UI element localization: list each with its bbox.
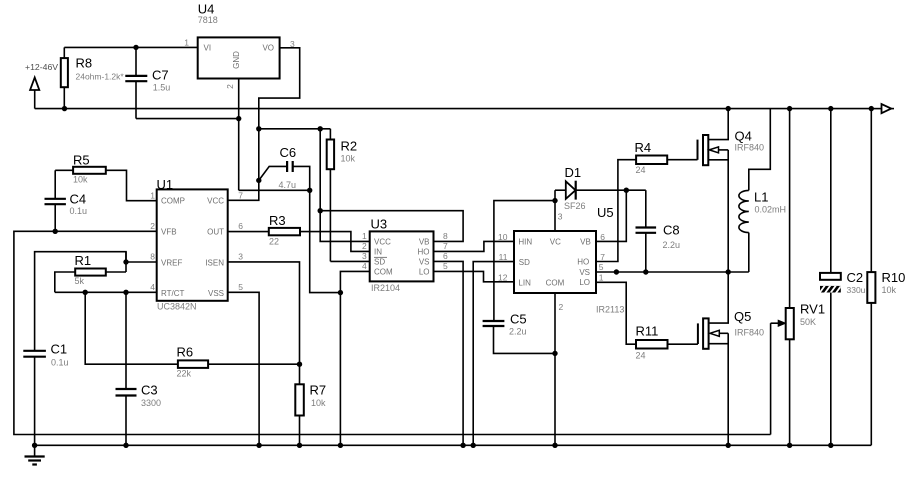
wire RT/CT branch to R6 bbox=[85, 292, 178, 364]
svg-text:VB: VB bbox=[419, 237, 430, 246]
wire U3 LO pin 5 to U5 LIN pin 12 bbox=[434, 271, 515, 281]
svg-text:2: 2 bbox=[559, 302, 564, 312]
wire U4 GND pin 2 down bbox=[238, 79, 240, 191]
svg-text:LIN: LIN bbox=[518, 278, 531, 287]
wire +18V branch line bbox=[259, 128, 331, 130]
svg-text:R8: R8 bbox=[76, 56, 93, 71]
svg-text:8: 8 bbox=[443, 231, 448, 241]
svg-text:12: 12 bbox=[498, 272, 508, 282]
svg-text:10: 10 bbox=[498, 232, 508, 242]
svg-text:6: 6 bbox=[238, 221, 243, 231]
svg-text:VCC: VCC bbox=[207, 197, 224, 206]
svg-text:2: 2 bbox=[225, 84, 235, 89]
svg-text:COM: COM bbox=[546, 279, 565, 288]
svg-text:U3: U3 bbox=[371, 217, 388, 232]
capacitor C1 bbox=[23, 342, 68, 446]
capacitor C3 bbox=[116, 383, 162, 446]
wire U3 COM ground drop bbox=[339, 293, 341, 446]
svg-text:ISEN: ISEN bbox=[205, 258, 224, 267]
svg-text:1: 1 bbox=[599, 272, 604, 282]
svg-text:L1: L1 bbox=[754, 190, 768, 205]
wire top +12-46V rail bbox=[35, 108, 872, 110]
resistor R1 bbox=[55, 253, 157, 292]
svg-text:C1: C1 bbox=[51, 342, 68, 357]
op-amp U1 UC3842N box bbox=[150, 177, 243, 312]
wire U5 LO pin 1 to R11 bbox=[596, 282, 636, 344]
wire U4 VO pin 3 routing bbox=[228, 48, 300, 201]
svg-text:8: 8 bbox=[150, 252, 155, 262]
svg-text:4.7u: 4.7u bbox=[279, 180, 297, 190]
wire U3 HO pin 7 to U5 HIN pin 10 bbox=[434, 241, 515, 251]
wire U1 VSS pin 5 to ground bbox=[228, 292, 259, 445]
svg-text:VSS: VSS bbox=[208, 289, 224, 298]
svg-text:C6: C6 bbox=[280, 145, 297, 160]
svg-text:11: 11 bbox=[499, 252, 508, 262]
svg-text:OUT: OUT bbox=[207, 228, 224, 237]
svg-text:6: 6 bbox=[443, 251, 448, 261]
wire U1 ISEN pin 3 to R6/R7 node bbox=[228, 262, 300, 364]
svg-text:4: 4 bbox=[362, 261, 367, 271]
wire U5 COM pin 2 to ground bbox=[554, 293, 556, 445]
capacitor C8 bbox=[636, 190, 681, 272]
diode D1 SF26 bbox=[555, 165, 646, 211]
svg-text:RT/CT: RT/CT bbox=[161, 289, 185, 298]
op-amp U5 IR2113 box bbox=[498, 205, 624, 315]
svg-text:C5: C5 bbox=[510, 312, 527, 327]
svg-text:VC: VC bbox=[550, 237, 561, 246]
svg-text:R1: R1 bbox=[75, 253, 92, 268]
svg-text:1: 1 bbox=[184, 38, 189, 48]
svg-text:RV1: RV1 bbox=[800, 302, 825, 317]
svg-text:3: 3 bbox=[362, 251, 367, 261]
svg-text:U1: U1 bbox=[157, 177, 174, 192]
svg-text:R11: R11 bbox=[636, 324, 659, 339]
svg-text:VI: VI bbox=[204, 44, 212, 53]
svg-text:0.1u: 0.1u bbox=[51, 358, 69, 368]
wire VREF net to C1 bbox=[35, 252, 157, 351]
wire RT/CT branch to C3 bbox=[125, 292, 127, 389]
svg-text:IR2113: IR2113 bbox=[596, 305, 624, 315]
wire bottom ground rail bbox=[35, 444, 872, 446]
svg-text:HO: HO bbox=[577, 258, 589, 267]
svg-text:5: 5 bbox=[443, 261, 448, 271]
svg-text:COMP: COMP bbox=[161, 197, 185, 206]
wire U5 VS pin 5 switch-node row bbox=[596, 271, 749, 273]
capacitor C4 bbox=[45, 170, 88, 231]
wire VFB feedback net bbox=[14, 231, 771, 434]
svg-text:7818: 7818 bbox=[198, 15, 218, 25]
svg-text:VO: VO bbox=[262, 44, 274, 53]
potentiometer RV1 bbox=[771, 109, 825, 446]
svg-text:24: 24 bbox=[636, 351, 646, 361]
svg-text:5: 5 bbox=[238, 282, 243, 292]
svg-text:VB: VB bbox=[580, 237, 591, 246]
svg-text:SD: SD bbox=[374, 257, 385, 266]
wire U3 VS pin 6 to ground bbox=[434, 261, 464, 445]
svg-text:U5: U5 bbox=[597, 205, 614, 220]
svg-text:R5: R5 bbox=[73, 153, 90, 168]
wire ground net from U4 down bbox=[310, 190, 341, 292]
svg-text:0.02mH: 0.02mH bbox=[755, 205, 787, 215]
svg-text:R10: R10 bbox=[882, 270, 906, 285]
svg-text:VFB: VFB bbox=[161, 228, 177, 237]
resistor R3 bbox=[228, 213, 370, 251]
svg-text:Q5: Q5 bbox=[734, 309, 751, 324]
svg-text:VREF: VREF bbox=[161, 258, 182, 267]
resistor R10 bbox=[867, 109, 905, 446]
svg-text:IR2104: IR2104 bbox=[371, 283, 400, 293]
wire D1 cathode branch to U5 VB pin 6 bbox=[596, 190, 626, 241]
wire U3 COM pin 4 bbox=[340, 271, 369, 292]
svg-text:D1: D1 bbox=[565, 165, 582, 180]
wire U5 VC pin 3 bbox=[554, 190, 556, 231]
svg-text:IN: IN bbox=[374, 247, 382, 256]
svg-text:10k: 10k bbox=[882, 285, 897, 295]
resistor R4 bbox=[635, 140, 698, 175]
svg-text:HO: HO bbox=[418, 247, 430, 256]
capacitor C7 bbox=[125, 47, 170, 118]
wire U5 SD pin 11 to ground bbox=[473, 262, 514, 446]
svg-text:10k: 10k bbox=[311, 398, 326, 408]
capacitor C5 bbox=[483, 312, 555, 354]
node output arrow (right end of top rail) bbox=[871, 104, 894, 113]
svg-text:R3: R3 bbox=[269, 213, 286, 228]
svg-text:R7: R7 bbox=[310, 383, 327, 398]
svg-text:VCC: VCC bbox=[374, 237, 391, 246]
svg-text:SD: SD bbox=[519, 258, 530, 267]
resistor R11 bbox=[636, 324, 698, 361]
svg-text:3300: 3300 bbox=[141, 398, 161, 408]
op-amp U3 IR2104 box bbox=[362, 217, 448, 294]
svg-text:+12-46V: +12-46V bbox=[25, 62, 58, 72]
svg-text:LO: LO bbox=[419, 267, 430, 276]
svg-text:1: 1 bbox=[150, 190, 155, 200]
transistor Q5 IRF840 bbox=[698, 272, 764, 445]
svg-text:Q4: Q4 bbox=[735, 129, 752, 144]
svg-text:VS: VS bbox=[419, 257, 430, 266]
svg-text:10k: 10k bbox=[73, 175, 88, 185]
resistor R8 bbox=[61, 47, 125, 108]
svg-text:24ohm-1.2k*: 24ohm-1.2k* bbox=[76, 72, 125, 82]
capacitor C2 electrolytic bbox=[818, 109, 866, 446]
svg-text:6: 6 bbox=[600, 232, 605, 242]
svg-text:R4: R4 bbox=[635, 140, 652, 155]
resistor R5 bbox=[55, 153, 157, 201]
svg-text:50K: 50K bbox=[800, 317, 816, 327]
svg-text:3: 3 bbox=[238, 252, 243, 262]
svg-text:COM: COM bbox=[374, 267, 393, 276]
resistor R6 bbox=[177, 345, 300, 379]
svg-text:2: 2 bbox=[362, 241, 367, 251]
svg-text:7: 7 bbox=[443, 241, 448, 251]
svg-text:0.1u: 0.1u bbox=[70, 206, 88, 216]
wire VC net to C5 bbox=[494, 201, 555, 321]
resistor R2 bbox=[327, 129, 370, 262]
op-amp U4 regulator 7818 box bbox=[184, 2, 295, 89]
wire VB link line to U3 pin 8 bbox=[320, 211, 463, 242]
svg-text:330u: 330u bbox=[847, 285, 866, 295]
node +12-46V supply arrow bbox=[25, 62, 58, 109]
wire VI input line bbox=[64, 46, 197, 48]
svg-text:SF26: SF26 bbox=[564, 201, 586, 211]
svg-text:7: 7 bbox=[600, 252, 605, 262]
svg-text:7: 7 bbox=[238, 190, 243, 200]
svg-text:R6: R6 bbox=[177, 345, 194, 360]
svg-text:2.2u: 2.2u bbox=[663, 240, 681, 250]
svg-text:C3: C3 bbox=[141, 383, 158, 398]
ground symbol bbox=[25, 445, 45, 464]
svg-text:VS: VS bbox=[579, 268, 590, 277]
svg-text:4: 4 bbox=[150, 282, 155, 292]
svg-text:10k: 10k bbox=[341, 154, 356, 164]
capacitor C6 bbox=[259, 145, 310, 190]
svg-text:C2: C2 bbox=[847, 270, 864, 285]
svg-text:LO: LO bbox=[579, 278, 590, 287]
transistor Q4 IRF840 bbox=[698, 109, 765, 272]
inductor L1 bbox=[739, 109, 786, 272]
svg-text:C4: C4 bbox=[70, 192, 87, 207]
svg-text:5: 5 bbox=[599, 262, 604, 272]
svg-text:22k: 22k bbox=[177, 369, 192, 379]
svg-text:2.2u: 2.2u bbox=[509, 327, 527, 337]
wire VB/VCC net vertical bbox=[320, 129, 370, 242]
wire U5 HO pin 7 up to R4 bbox=[596, 160, 636, 262]
resistor R7 bbox=[295, 364, 326, 445]
svg-text:GND: GND bbox=[232, 51, 241, 69]
svg-text:C7: C7 bbox=[152, 68, 169, 83]
svg-text:24: 24 bbox=[636, 165, 646, 175]
svg-text:3: 3 bbox=[558, 212, 563, 222]
svg-text:5k: 5k bbox=[75, 276, 85, 286]
svg-text:1: 1 bbox=[362, 231, 367, 241]
svg-text:C8: C8 bbox=[663, 223, 680, 238]
wire C7 to U4 GND line bbox=[136, 118, 239, 120]
svg-text:2: 2 bbox=[150, 221, 155, 231]
svg-text:IRF840: IRF840 bbox=[735, 143, 765, 153]
svg-text:1.5u: 1.5u bbox=[153, 83, 171, 93]
wire U4 GND elbow to ground net bbox=[239, 189, 310, 191]
svg-text:UC3842N: UC3842N bbox=[157, 302, 197, 312]
svg-text:R2: R2 bbox=[341, 139, 358, 154]
svg-text:HIN: HIN bbox=[518, 238, 532, 247]
svg-text:IRF840: IRF840 bbox=[735, 328, 765, 338]
svg-text:22: 22 bbox=[269, 237, 279, 247]
